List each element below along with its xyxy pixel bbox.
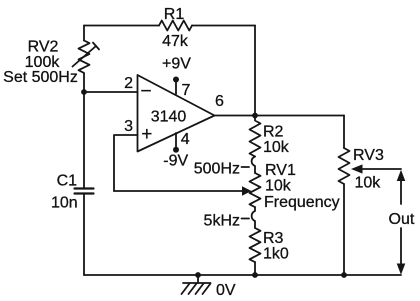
svg-text:+9V: +9V [162,56,191,73]
ground junction dot [195,272,201,278]
svg-text:C1: C1 [57,173,78,190]
dash pointer 5kHz [242,218,250,220]
wire hook node between R2 and RV1 [252,157,255,174]
svg-text:6: 6 [215,93,224,110]
wire left vertical top (to RV2) [83,26,85,41]
svg-text:−: − [140,81,151,102]
op-amp U1 3140 [138,75,215,152]
arrowhead RV3 wiper [351,164,363,173]
wire Out arrow lower shaft [400,228,402,265]
svg-text:1k0: 1k0 [263,246,289,263]
wire RV3 bottom to rail [343,184,345,275]
svg-text:4: 4 [181,131,190,148]
svg-text:10k: 10k [265,178,292,195]
+9V terminal dot [173,77,179,83]
svg-text:Set 500Hz: Set 500Hz [3,69,78,86]
svg-text:47k: 47k [162,33,189,50]
wire output (pin 6) [215,115,345,117]
wire top rail right segment [192,25,255,27]
svg-text:R3: R3 [263,230,284,247]
svg-text:3: 3 [124,118,133,135]
svg-text:Out: Out [389,211,415,228]
potentiometer RV3 [339,148,350,184]
node output junction dot [252,113,258,119]
svg-text:0V: 0V [216,282,236,299]
node A junction dot [81,89,87,95]
potentiometer RV2 [79,41,90,73]
wire hook node between RV1 and R3 [252,207,255,228]
svg-text:3140: 3140 [151,109,187,126]
wire RV3 wiper [361,168,401,170]
svg-text:Frequency: Frequency [264,194,340,211]
wire top rail left segment [84,25,159,27]
wire non-inverting input (pin 3) [114,135,138,191]
arrowhead Out down [397,264,406,275]
-9V terminal dot [173,147,179,153]
arrowhead RV1 wiper [242,186,252,196]
svg-text:2: 2 [124,75,133,92]
svg-text:10k: 10k [355,175,382,192]
wire bottom rail [84,274,401,276]
svg-text:500Hz: 500Hz [194,161,240,178]
dash pointer 500Hz [242,166,250,168]
wire right vertical from top rail to output node [254,26,256,116]
resistor R1 [159,21,192,31]
wire RV2 bottom to node A [83,73,85,92]
wire RV1 wiper arrow [114,190,243,192]
resistor R2 [250,116,261,157]
ground stub [197,275,199,283]
wire pin 4 stub [175,133,177,150]
ground symbol [183,282,211,284]
capacitor C1 [75,187,94,189]
wire node A down to C1 [83,92,85,189]
R3 bottom junction dot [252,272,258,278]
svg-text:7: 7 [182,82,191,99]
svg-text:R1: R1 [164,6,185,23]
svg-text:R2: R2 [263,124,284,141]
svg-text:RV2: RV2 [28,39,59,56]
potentiometer RV1 [250,173,261,207]
wire to RV3 top [343,116,345,149]
wire C1 to bottom rail [83,194,85,276]
svg-text:RV3: RV3 [353,147,384,164]
svg-text:10n: 10n [51,195,78,212]
svg-text:RV1: RV1 [265,162,296,179]
svg-text:-9V: -9V [163,153,188,170]
svg-text:5kHz: 5kHz [204,213,240,230]
wire pin 7 stub [175,80,177,94]
wire inverting input (pin 2) [84,91,138,93]
svg-text:10k: 10k [263,139,290,156]
arrowhead Out up [397,170,406,181]
svg-text:+: + [141,124,152,145]
RV3 bottom junction dot [341,272,347,278]
wire R3 bottom to rail [254,262,256,275]
resistor R3 [250,228,261,262]
wire Out arrow upper shaft [400,178,402,204]
